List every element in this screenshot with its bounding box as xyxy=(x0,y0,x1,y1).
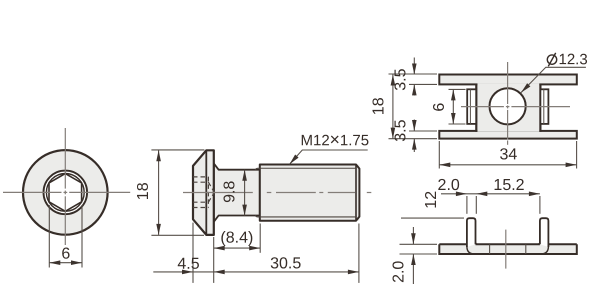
dimension 3.5 upper line and arrows xyxy=(413,58,415,75)
svg-text:18: 18 xyxy=(371,97,388,115)
hole vertical centerline xyxy=(507,62,509,145)
dimension 6 line xyxy=(49,262,82,264)
svg-text:18: 18 xyxy=(135,182,152,200)
dimension 3.5 upper extension line xyxy=(409,83,437,85)
right tab (top view) xyxy=(540,89,548,124)
bottom dimension line 4.5 / 30.5 xyxy=(153,271,359,273)
thread root line top xyxy=(255,168,356,170)
dimension 2.0 / 15.2 line xyxy=(441,193,540,195)
svg-text:M12×1.75: M12×1.75 xyxy=(300,129,369,149)
left tab bend arc xyxy=(467,247,474,254)
right tab bend arc xyxy=(541,247,548,254)
hole edge projection lines xyxy=(490,244,526,254)
svg-text:15.2: 15.2 xyxy=(493,177,524,194)
plate bottom bar xyxy=(439,131,577,139)
hole horizontal centerline xyxy=(461,106,570,108)
dimension 34 extension lines xyxy=(439,141,576,169)
dimension 9.8 line xyxy=(244,170,246,216)
svg-text:30.5: 30.5 xyxy=(270,255,301,272)
left tab (top view) xyxy=(467,89,476,124)
right tab (side view) xyxy=(540,218,549,247)
socket drill circle xyxy=(46,174,84,212)
dimension 34 line xyxy=(439,164,576,166)
svg-text:12: 12 xyxy=(423,191,440,209)
svg-text:2.0: 2.0 xyxy=(391,261,408,283)
head band line xyxy=(205,150,207,235)
bolt head profile xyxy=(193,150,214,235)
web left edge xyxy=(475,84,477,132)
plate top bar xyxy=(439,75,577,85)
dimension 6 extension lines (tab) xyxy=(449,89,466,124)
svg-text:4.5: 4.5 xyxy=(177,256,199,273)
dimension 2.0 left extension lines xyxy=(400,244,438,254)
label text dia 12.3 xyxy=(547,55,556,64)
dimension 12 extension line xyxy=(401,217,464,219)
dimension 18 extension lines (plate) xyxy=(389,74,438,139)
dimension 3.5 lower line and arrows xyxy=(413,120,415,132)
thread end chamfer line xyxy=(355,165,357,221)
svg-text:34: 34 xyxy=(499,146,517,163)
left view vertical centerline xyxy=(64,128,66,245)
left view horizontal centerline xyxy=(3,191,130,193)
thread root line bottom xyxy=(255,215,356,217)
web right edge xyxy=(539,84,541,132)
svg-text:3.5: 3.5 xyxy=(393,68,410,90)
thread crest outline xyxy=(260,165,360,221)
center hole circle xyxy=(490,88,526,124)
head counterbore circle xyxy=(44,171,88,215)
hex socket hexagon xyxy=(49,174,82,212)
dimension 18 line (plate) xyxy=(392,75,394,139)
right tab bend line xyxy=(543,89,545,124)
bolt centerline xyxy=(183,192,371,194)
bolt neck with chamfers xyxy=(214,163,260,221)
plate bar xyxy=(439,244,577,254)
left tab bend line xyxy=(469,89,471,124)
dimension 6 line (tab) xyxy=(452,89,454,124)
thread body xyxy=(260,165,360,221)
svg-text:(8.4): (8.4) xyxy=(220,230,253,247)
dimension 18 line xyxy=(158,150,160,235)
hex socket hidden lines xyxy=(193,177,214,208)
svg-text:6: 6 xyxy=(61,246,70,263)
svg-text:12.3: 12.3 xyxy=(558,51,587,68)
svg-text:6: 6 xyxy=(431,103,448,112)
bolt head outer circle xyxy=(23,150,108,235)
dimension 6 (hex across flats) extension lines xyxy=(49,205,82,268)
plate side vertical centerline xyxy=(505,230,507,269)
left tab (side view) xyxy=(467,218,476,247)
dimension 2.0 top extension lines xyxy=(467,196,540,214)
dimension 3.5 lower extension line xyxy=(409,130,437,132)
dimension 18 extension lines xyxy=(151,150,204,235)
left tab root fillet xyxy=(476,242,479,244)
svg-text:3.5: 3.5 xyxy=(393,119,410,141)
plate web xyxy=(477,83,539,132)
label M12x1.75 leader xyxy=(290,150,368,164)
dimension (8.4) extension line xyxy=(259,224,261,253)
right tab root fillet xyxy=(537,242,540,244)
label dia 12.3 leader xyxy=(521,67,586,92)
dimension (8.4) line xyxy=(214,247,261,249)
svg-text:9.8: 9.8 xyxy=(221,181,238,203)
bottom dimension extension lines xyxy=(193,223,359,283)
svg-text:2.0: 2.0 xyxy=(438,177,460,194)
dimension 2.0 left line and arrows xyxy=(412,227,414,244)
